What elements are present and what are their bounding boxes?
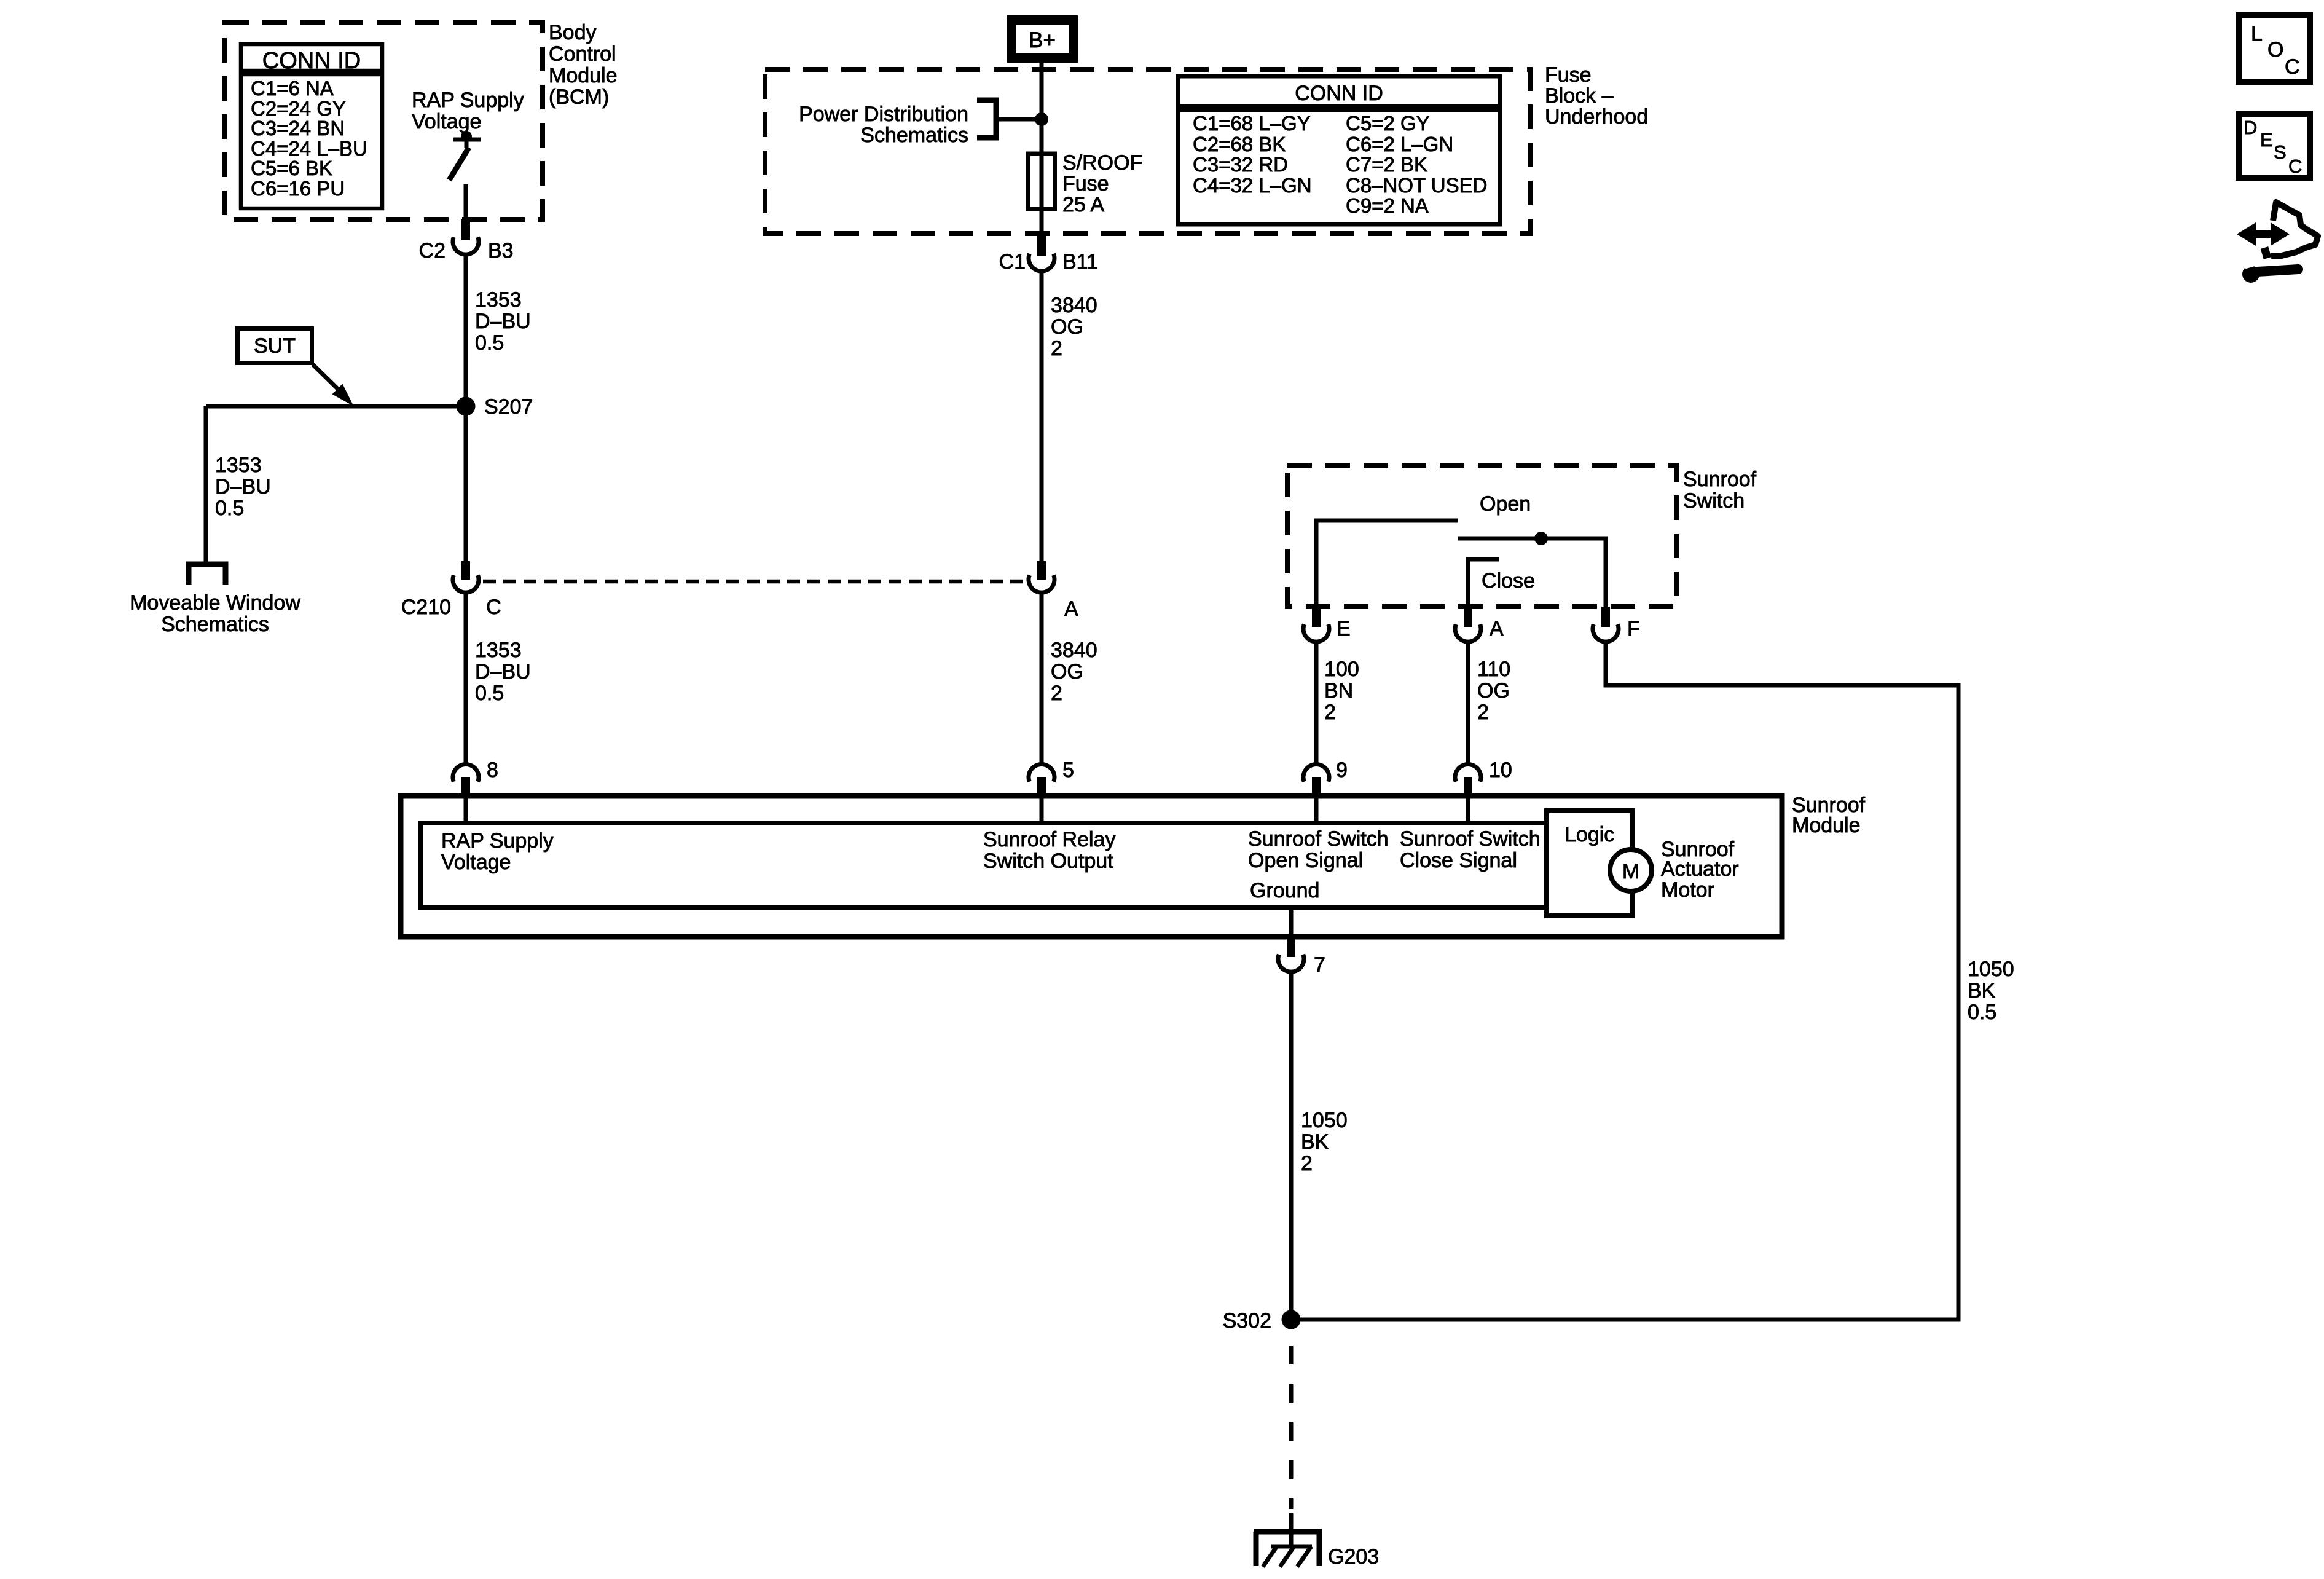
- CONN ID table (fuse block): [1178, 76, 1500, 224]
- RAP supply switch symbol: [449, 131, 481, 180]
- svg-text:Moveable Window: Moveable Window: [130, 591, 300, 615]
- svg-text:Underhood: Underhood: [1545, 105, 1648, 128]
- svg-text:CONN ID: CONN ID: [1295, 82, 1383, 105]
- svg-text:C: C: [2288, 156, 2302, 177]
- svg-text:E: E: [1337, 617, 1351, 640]
- svg-text:25 A: 25 A: [1062, 193, 1104, 216]
- svg-text:100: 100: [1324, 658, 1359, 681]
- svg-text:C2: C2: [419, 239, 446, 262]
- wire A to pin 10: [1466, 642, 1470, 763]
- svg-text:C: C: [2285, 55, 2300, 79]
- connector E: [1303, 607, 1351, 642]
- svg-text:Switch Output: Switch Output: [983, 849, 1113, 873]
- wire BCM switch to C2 connector: [464, 184, 468, 219]
- svg-text:C8–NOT USED: C8–NOT USED: [1346, 174, 1487, 197]
- svg-text:Motor: Motor: [1661, 878, 1714, 902]
- svg-text:C4=32 L–GN: C4=32 L–GN: [1193, 174, 1312, 197]
- wire label 3840 OG 2 (lower): [1051, 639, 1097, 705]
- svg-text:Fuse: Fuse: [1062, 172, 1109, 195]
- svg-text:Ground: Ground: [1250, 879, 1319, 902]
- svg-text:OG: OG: [1477, 679, 1510, 703]
- wire pin5 into module: [1040, 797, 1044, 823]
- RAP Supply Voltage label: [412, 89, 524, 133]
- Power Distribution Schematics label: [799, 103, 968, 147]
- pin 9 connector (module): [1303, 758, 1348, 798]
- pin 7 connector (module bottom): [1278, 937, 1325, 977]
- label Sunroof Relay Switch Output: [983, 828, 1115, 873]
- svg-text:E: E: [2260, 129, 2273, 151]
- svg-text:10: 10: [1489, 758, 1512, 782]
- svg-text:B11: B11: [1062, 250, 1098, 274]
- Sunroof Module label: [1792, 793, 1866, 837]
- wire B+ down through fuse: [1040, 63, 1044, 234]
- svg-text:1050: 1050: [1968, 958, 2014, 981]
- wire into ground symbol: [1289, 1513, 1294, 1546]
- connector C2/B3: [419, 219, 514, 262]
- svg-text:S/ROOF: S/ROOF: [1062, 151, 1142, 175]
- wire F to right side down: [1291, 642, 1958, 1320]
- wire label 3840 OG 2 (upper): [1051, 294, 1097, 360]
- svg-text:A: A: [1064, 597, 1078, 621]
- svg-text:0.5: 0.5: [475, 331, 504, 355]
- svg-text:D–BU: D–BU: [475, 660, 531, 683]
- svg-text:2: 2: [1051, 682, 1062, 705]
- node S207: [457, 397, 476, 416]
- svg-text:G203: G203: [1328, 1545, 1379, 1569]
- svg-text:C9=2 NA: C9=2 NA: [1346, 194, 1429, 217]
- svg-text:2: 2: [1301, 1152, 1313, 1175]
- svg-text:O: O: [2267, 38, 2283, 61]
- dashed ground wire S302 to G203: [1289, 1346, 1294, 1509]
- wire C2 to S207 to C210: [464, 256, 468, 561]
- svg-text:OG: OG: [1051, 315, 1083, 339]
- switch Close label: [1482, 569, 1535, 593]
- pin 5 connector (module): [1029, 758, 1074, 798]
- BCM module dashed box: [224, 22, 543, 219]
- switch open contact wire: [1316, 521, 1458, 607]
- svg-text:M: M: [1622, 860, 1639, 883]
- svg-text:1353: 1353: [475, 639, 522, 662]
- off-page connector bracket (Moveable Window): [189, 564, 226, 585]
- svg-text:BN: BN: [1324, 679, 1353, 703]
- svg-text:Schematics: Schematics: [860, 124, 968, 147]
- fuse S/ROOF 25A symbol: [1029, 154, 1055, 209]
- svg-text:0.5: 0.5: [1968, 1001, 1996, 1024]
- svg-text:C6=16 PU: C6=16 PU: [251, 177, 345, 200]
- svg-text:Close: Close: [1482, 569, 1535, 593]
- wire label 1353 D-BU 0.5 (branch): [215, 454, 271, 520]
- connector A (switch): [1455, 607, 1504, 642]
- label Sunroof Actuator Motor: [1661, 838, 1739, 902]
- svg-text:Switch: Switch: [1683, 489, 1745, 513]
- wire ground inside module: [1289, 908, 1294, 935]
- svg-text:1353: 1353: [215, 454, 262, 477]
- SUT box: [238, 329, 312, 363]
- wire pin10 into module: [1466, 797, 1470, 823]
- svg-text:C: C: [486, 596, 501, 619]
- label Sunroof Switch Open Signal: [1248, 827, 1389, 872]
- connector C210 pin C: [401, 561, 501, 619]
- wire S207 branch horizontal: [206, 404, 466, 409]
- svg-text:Close Signal: Close Signal: [1400, 849, 1517, 872]
- svg-text:L: L: [2251, 22, 2263, 45]
- svg-text:9: 9: [1336, 758, 1348, 782]
- svg-text:S: S: [2274, 141, 2287, 163]
- wire C210 C to module pin 8: [464, 594, 468, 763]
- BCM label "Body Control Module (BCM)": [549, 21, 618, 109]
- svg-text:C3=32 RD: C3=32 RD: [1193, 153, 1288, 176]
- off-page bracket (power distribution): [977, 100, 996, 138]
- svg-text:C1: C1: [999, 250, 1026, 274]
- wire label 1353 D-BU 0.5 (lower): [475, 639, 531, 705]
- svg-text:Open Signal: Open Signal: [1248, 849, 1363, 872]
- svg-text:C1=68 L–GY: C1=68 L–GY: [1193, 112, 1311, 135]
- svg-text:Fuse: Fuse: [1545, 63, 1592, 87]
- label RAP Supply Voltage (module): [441, 829, 554, 874]
- svg-text:3840: 3840: [1051, 639, 1097, 662]
- svg-text:RAP Supply: RAP Supply: [412, 89, 524, 112]
- pin 10 connector (module): [1455, 758, 1512, 798]
- wire pin7 to S302: [1289, 972, 1294, 1320]
- svg-text:Sunroof Switch: Sunroof Switch: [1400, 827, 1541, 851]
- svg-text:0.5: 0.5: [215, 497, 244, 520]
- svg-text:C3=24 BN: C3=24 BN: [251, 117, 345, 140]
- svg-text:D: D: [2244, 117, 2257, 138]
- connector C210 pin A: [1029, 561, 1078, 621]
- svg-text:BK: BK: [1968, 979, 1996, 1002]
- svg-text:5: 5: [1062, 758, 1074, 782]
- svg-text:A: A: [1490, 617, 1504, 640]
- svg-text:2: 2: [1051, 337, 1062, 360]
- svg-text:C2=68 BK: C2=68 BK: [1193, 133, 1286, 156]
- wire label 1353 D-BU 0.5 (upper): [475, 288, 531, 355]
- svg-text:0.5: 0.5: [475, 682, 504, 705]
- svg-text:Actuator: Actuator: [1661, 857, 1739, 881]
- wire E to pin 9: [1314, 642, 1319, 763]
- svg-text:Sunroof Switch: Sunroof Switch: [1248, 827, 1389, 851]
- node S302: [1282, 1310, 1301, 1329]
- svg-text:BK: BK: [1301, 1130, 1329, 1154]
- Sunroof Switch label: [1683, 468, 1757, 513]
- svg-text:Open: Open: [1480, 492, 1531, 516]
- wire label 110 OG 2: [1477, 658, 1510, 724]
- B+ power symbol box: [1012, 20, 1074, 58]
- service icon: double arrow, panel outline, wrench: [2237, 202, 2318, 283]
- svg-text:Power Distribution: Power Distribution: [799, 103, 968, 126]
- svg-text:(BCM): (BCM): [549, 85, 609, 109]
- svg-text:C5=6 BK: C5=6 BK: [251, 157, 332, 179]
- svg-text:Logic: Logic: [1564, 823, 1614, 846]
- svg-text:Sunroof: Sunroof: [1683, 468, 1757, 491]
- Logic box: [1547, 811, 1632, 916]
- svg-text:C1=6 NA: C1=6 NA: [251, 77, 334, 100]
- svg-text:D–BU: D–BU: [215, 475, 271, 498]
- dashed connector line C210: [483, 580, 1025, 584]
- svg-text:2: 2: [1477, 701, 1489, 724]
- junction dot B+ wire: [1035, 112, 1048, 126]
- svg-text:Voltage: Voltage: [441, 851, 511, 874]
- svg-text:8: 8: [487, 758, 498, 782]
- svg-text:3840: 3840: [1051, 294, 1097, 317]
- svg-text:110: 110: [1477, 658, 1510, 681]
- connector F: [1593, 607, 1640, 642]
- switch common wire to F: [1458, 538, 1606, 607]
- switch Open label: [1480, 492, 1531, 516]
- ground symbol G203: [1254, 1532, 1379, 1569]
- Sunroof Module outer box: [401, 796, 1782, 937]
- wire B11 to C210 pin A: [1040, 272, 1044, 561]
- svg-text:D–BU: D–BU: [475, 310, 531, 333]
- svg-text:Control: Control: [549, 42, 616, 66]
- svg-text:7: 7: [1314, 953, 1325, 977]
- wire pin8 into module: [464, 797, 468, 823]
- svg-text:Module: Module: [549, 64, 618, 87]
- label Ground: [1250, 879, 1319, 902]
- svg-text:Module: Module: [1792, 814, 1861, 837]
- svg-text:S302: S302: [1223, 1309, 1271, 1333]
- label Sunroof Switch Close Signal: [1400, 827, 1541, 872]
- connector C1/B11: [999, 234, 1098, 274]
- switch close contact wire: [1468, 559, 1499, 607]
- svg-text:Block –: Block –: [1545, 84, 1614, 108]
- LOC icon box: [2239, 15, 2310, 82]
- svg-text:2: 2: [1324, 701, 1336, 724]
- svg-text:1353: 1353: [475, 288, 522, 312]
- svg-text:C210: C210: [401, 596, 451, 619]
- Fuse Block - Underhood label: [1545, 63, 1648, 128]
- motor M circle: [1610, 849, 1652, 891]
- wire C210 A to module pin 5: [1040, 594, 1044, 763]
- wire label 100 BN 2: [1324, 658, 1359, 724]
- svg-text:OG: OG: [1051, 660, 1083, 683]
- svg-text:B3: B3: [488, 239, 514, 262]
- svg-text:Sunroof Relay: Sunroof Relay: [983, 828, 1115, 851]
- svg-text:Schematics: Schematics: [161, 613, 269, 636]
- SUT arrow: [313, 364, 339, 390]
- svg-text:Voltage: Voltage: [412, 110, 481, 133]
- svg-text:RAP Supply: RAP Supply: [441, 829, 554, 853]
- wire branch vertical to off-page: [204, 406, 208, 562]
- svg-text:SUT: SUT: [254, 334, 296, 358]
- svg-text:C6=2 L–GN: C6=2 L–GN: [1346, 133, 1453, 156]
- svg-text:Body: Body: [549, 21, 597, 44]
- CONN ID table (BCM): [241, 44, 382, 208]
- pin 8 connector (module): [453, 758, 498, 798]
- wire pin9 into module: [1314, 797, 1319, 823]
- svg-text:1050: 1050: [1301, 1109, 1348, 1132]
- Fuse Block dashed box: [765, 69, 1530, 234]
- svg-text:CONN ID: CONN ID: [262, 48, 361, 74]
- svg-text:B+: B+: [1029, 28, 1056, 52]
- svg-text:C7=2 BK: C7=2 BK: [1346, 153, 1427, 176]
- junction dot switch: [1534, 532, 1548, 545]
- Sunroof Switch dashed box: [1287, 465, 1676, 607]
- svg-text:S207: S207: [484, 395, 533, 419]
- wire label 1050 BK 0.5: [1968, 958, 2014, 1024]
- DESC icon box: [2239, 114, 2310, 178]
- svg-text:F: F: [1627, 617, 1640, 640]
- module inner signal box: [420, 823, 1555, 908]
- wire label 1050 BK 2: [1301, 1109, 1348, 1175]
- svg-text:C5=2 GY: C5=2 GY: [1346, 112, 1430, 135]
